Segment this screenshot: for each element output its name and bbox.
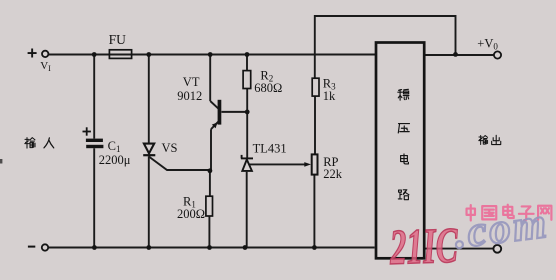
svg-text:TL431: TL431 xyxy=(253,142,287,156)
svg-text:22k: 22k xyxy=(323,167,343,181)
svg-text:VT: VT xyxy=(183,75,200,89)
svg-text:.com: .com xyxy=(451,200,551,258)
svg-text:+V0: +V0 xyxy=(477,37,498,52)
svg-text:680Ω: 680Ω xyxy=(254,81,282,95)
svg-text:200Ω: 200Ω xyxy=(177,207,205,221)
svg-text:2200μ: 2200μ xyxy=(99,153,131,167)
svg-text:VS: VS xyxy=(162,141,178,155)
svg-text:21IC: 21IC xyxy=(388,218,459,276)
svg-text:VI: VI xyxy=(40,60,51,73)
svg-text:1k: 1k xyxy=(323,89,336,103)
svg-text:FU: FU xyxy=(109,32,127,47)
svg-text:C1: C1 xyxy=(108,139,121,154)
svg-text:9012: 9012 xyxy=(177,89,202,103)
